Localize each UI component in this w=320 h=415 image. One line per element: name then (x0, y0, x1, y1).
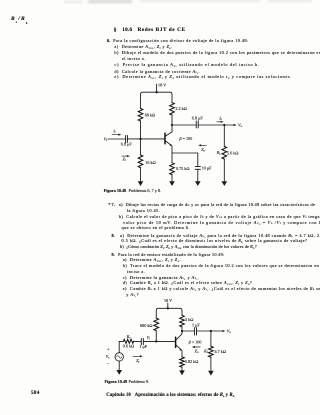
wire: source up to input line (119, 341, 123, 352)
svg-text:18 V: 18 V (164, 298, 172, 303)
output terminal Vo (fig 10.49) (227, 329, 232, 335)
svg-text:Vi: Vi (104, 136, 108, 142)
wire: cap to base bar (143, 340, 175, 342)
ground below RL (222, 159, 228, 186)
capacitor C3 1 uF (input, fig 10.49) (139, 339, 147, 350)
wire: emitter down (181, 351, 183, 357)
resistor RL2 4.7 kOhm (203, 331, 226, 357)
ground below RE2 (179, 367, 185, 375)
problem 9 (112, 253, 115, 257)
svg-text:−: − (107, 360, 110, 365)
current arrow Io (217, 117, 224, 123)
wire: top rail (fig 10.49) (156, 308, 182, 318)
svg-text:Zo: Zo (195, 348, 199, 354)
svg-text:68 kΩ: 68 kΩ (145, 113, 156, 118)
node: collector/output junction (171, 124, 173, 126)
resistor R1 68 kOhm (138, 108, 155, 121)
svg-text:0.6 kΩ: 0.6 kΩ (123, 343, 135, 348)
svg-text:+: + (107, 347, 110, 352)
svg-text:680 kΩ: 680 kΩ (140, 323, 153, 328)
svg-text:1 μF: 1 μF (192, 323, 200, 328)
svg-text:2.2 kΩ: 2.2 kΩ (175, 106, 187, 111)
node: supply junction on rail (fig 10.49) (167, 307, 169, 309)
wire: cap to Vo with load tap (198, 124, 236, 126)
svg-text:Zo: Zo (201, 147, 205, 153)
ground below RL2 (208, 357, 214, 375)
svg-text:0.75 kΩ: 0.75 kΩ (176, 166, 190, 171)
wire: cap to base (127, 138, 164, 140)
problem 8 (112, 234, 115, 238)
svg-text:Vs: Vs (106, 354, 111, 360)
impedance arrow Zo (fig 10.49) (192, 346, 200, 354)
svg-text:10 μF: 10 μF (202, 166, 212, 171)
svg-text:6.8 μF: 6.8 μF (192, 115, 204, 120)
section heading (114, 28, 117, 32)
resistor RB 680 kOhm (140, 318, 159, 331)
svg-text:18 V: 18 V (158, 82, 166, 87)
svg-text:16 kΩ: 16 kΩ (145, 160, 156, 165)
svg-text:Rs: Rs (126, 334, 132, 340)
input label Vi (fig 10.49) (147, 335, 151, 341)
svg-text:0.82 kΩ: 0.82 kΩ (185, 359, 199, 364)
svg-text:RL: RL (216, 150, 222, 156)
svg-text:Vi: Vi (147, 335, 151, 341)
svg-text:Zi: Zi (136, 358, 139, 364)
ground below CE (195, 169, 201, 186)
figure 10.48 caption (104, 189, 127, 193)
wire: R1 bottom to base node (140, 121, 142, 139)
ground below R2 (138, 168, 144, 186)
supply 18 V (157, 82, 167, 92)
svg-text:6.8 μF: 6.8 μF (121, 142, 133, 147)
resistor R2 16 kOhm (138, 139, 156, 168)
resistor Rs 0.6 kOhm (123, 334, 135, 348)
supply 18 V (fig 10.49) (164, 298, 172, 308)
svg-text:Vo: Vo (227, 329, 232, 335)
resistor RE2 0.82 kOhm (180, 357, 199, 367)
svg-text:Vo: Vo (238, 122, 243, 128)
node: load junction (fig 10.49) (210, 330, 212, 332)
wire: emitter down and to bypass branch (172, 146, 198, 153)
svg-text:Io: Io (218, 117, 222, 122)
wire: cap to Vo (fig 10.49) (197, 330, 226, 332)
node: base/divider junction (139, 138, 141, 140)
svg-text:5.6 kΩ: 5.6 kΩ (227, 150, 239, 155)
impedance arrow Zi (122, 155, 130, 162)
node: collector/output junction (fig 10.49) (181, 330, 183, 332)
capacitor C2 6.8 uF (output) (192, 115, 204, 128)
svg-text:RL: RL (203, 349, 209, 355)
resistor RL 5.6 kOhm (216, 125, 239, 159)
wire: RC2 to collector (181, 327, 183, 334)
problem 7 (108, 203, 115, 207)
problem 6 (107, 39, 110, 43)
impedance arrow Zi (fig 10.49) (133, 355, 143, 364)
svg-text:β = 100: β = 100 (188, 339, 202, 344)
svg-text:3 kΩ: 3 kΩ (185, 317, 193, 322)
output terminal Vo (238, 122, 243, 128)
wire: output line (172, 124, 196, 126)
page footer (31, 392, 40, 396)
svg-text:Zi: Zi (123, 157, 126, 163)
svg-text:β = 100: β = 100 (178, 136, 192, 141)
wire: top rail with corners (141, 92, 173, 108)
wire: RC bottom through collector node (171, 115, 173, 132)
resistor RC2 3 kOhm (180, 315, 194, 327)
source Vs (sine) (106, 347, 124, 366)
impedance arrow Zo (198, 144, 206, 152)
wire: output line (fig 10.49) (182, 330, 194, 332)
transistor Q2 (176, 334, 202, 351)
input terminal Vi (104, 136, 126, 142)
node: load junction (223, 124, 225, 126)
wire: Rs to cap (134, 340, 141, 342)
svg-text:Ii: Ii (112, 129, 115, 134)
resistor RE 0.75 kOhm (170, 153, 190, 175)
capacitor C4 1 uF (output, fig 10.49) (192, 323, 200, 336)
capacitor C1 6.8 uF (input) (121, 136, 133, 147)
capacitor CE 10 uF (bypass) (195, 153, 212, 171)
faint top-edge smudge (88, 0, 132, 3)
ground below source (116, 361, 122, 375)
wire: RB bottom to base node (155, 331, 157, 342)
figure 10.49 caption (105, 380, 128, 384)
current arrow Ii (112, 129, 121, 135)
resistor RC 2.2 kOhm (170, 103, 187, 115)
svg-text:1 μF: 1 μF (139, 344, 147, 349)
transistor Q1 (165, 132, 192, 146)
node: base junction (fig 10.49) (155, 340, 157, 342)
svg-text:4.7 kΩ: 4.7 kΩ (215, 349, 227, 354)
node: supply junction on rail (155, 91, 157, 93)
running head Rs/RL top-left (11, 17, 15, 21)
ground below RE (169, 175, 175, 186)
